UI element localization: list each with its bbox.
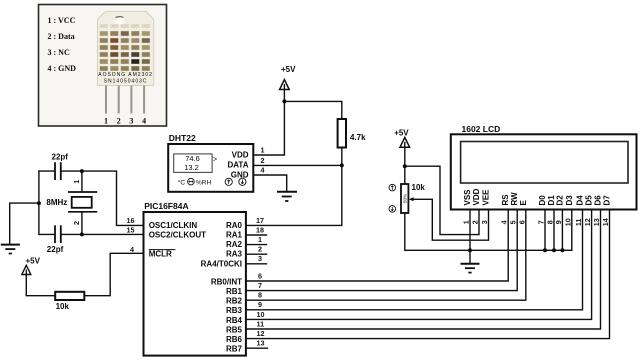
DHT22 pin numbers 1 2 4 bbox=[261, 146, 265, 175]
svg-text:%RH: %RH bbox=[196, 179, 211, 186]
PIC pin 4 number bbox=[130, 245, 134, 254]
svg-text:OSC2/CLKOUT: OSC2/CLKOUT bbox=[149, 231, 206, 240]
ground symbol (crystal) bbox=[1, 245, 20, 254]
ground symbol (LCD) bbox=[461, 264, 480, 273]
wire DATA node down to RA0 bbox=[246, 165, 342, 225]
capacitor C1 22pf bbox=[55, 162, 61, 180]
sensor pins bbox=[105, 86, 145, 114]
svg-text:3: 3 bbox=[480, 220, 489, 224]
svg-text:9: 9 bbox=[554, 220, 563, 224]
svg-text:RB7: RB7 bbox=[226, 345, 243, 354]
wire RB2 to LCD E bbox=[246, 210, 526, 301]
pin stub RA4 bbox=[246, 263, 267, 265]
resistor R1 4.7k bbox=[338, 119, 367, 148]
svg-text:12: 12 bbox=[583, 218, 592, 226]
DHT22 up-arrow button bbox=[225, 178, 232, 185]
wire resistor bottom to DATA node bbox=[341, 148, 343, 166]
sensor vent slots bbox=[100, 24, 150, 71]
svg-text:74.6: 74.6 bbox=[185, 154, 200, 163]
LCD pin numbers rotated bbox=[462, 218, 611, 226]
svg-text:7: 7 bbox=[258, 281, 262, 290]
svg-text:MCLR: MCLR bbox=[149, 250, 172, 259]
wire LCD D2 to ground rail bbox=[561, 210, 563, 251]
svg-text:2: 2 bbox=[117, 117, 121, 126]
svg-text:13: 13 bbox=[257, 339, 265, 348]
ground symbol (DHT22) bbox=[277, 192, 297, 201]
wire +5V node to LCD VDD bbox=[405, 166, 479, 234]
svg-text:4: 4 bbox=[500, 220, 509, 224]
PIC right pin names RB bbox=[211, 277, 243, 353]
wire RB4 to LCD D5 bbox=[246, 210, 592, 320]
svg-text:3: 3 bbox=[258, 254, 262, 263]
wire crystal node1 to OSC1 bbox=[82, 171, 144, 225]
wire MCLR to 10k resistor bbox=[84, 253, 143, 295]
wire C2 right plate to crystal node 2 bbox=[62, 233, 82, 235]
wire RB0 to LCD RS bbox=[246, 210, 508, 282]
svg-text:1: 1 bbox=[462, 220, 471, 224]
pin stub RA3 bbox=[246, 253, 267, 255]
svg-text:22pf: 22pf bbox=[47, 245, 64, 254]
LCD LCD1 1602 label bbox=[462, 124, 501, 134]
svg-text:RB2: RB2 bbox=[226, 297, 243, 306]
wire LCD D0 to ground rail bbox=[544, 210, 546, 251]
LCD LCD1 body bbox=[451, 134, 637, 209]
wire RB5 to LCD D6 bbox=[246, 210, 601, 330]
sensor pin numbers bbox=[104, 117, 146, 126]
svg-text:1: 1 bbox=[104, 117, 108, 126]
svg-text:RA3: RA3 bbox=[226, 250, 243, 259]
PIC pin 16 number bbox=[127, 216, 135, 225]
svg-text:4: 4 bbox=[142, 117, 146, 126]
capacitor C1 22pf label bbox=[52, 153, 69, 162]
svg-text:4.7k: 4.7k bbox=[350, 133, 366, 142]
svg-text:D3: D3 bbox=[565, 195, 574, 206]
svg-text:1: 1 bbox=[258, 235, 262, 244]
potentiometer down-adjust marker bbox=[389, 206, 396, 213]
sensor U1 DHT22 body bbox=[168, 144, 253, 192]
DHT22 sensor photo body bbox=[98, 11, 154, 85]
svg-text:50%: 50% bbox=[403, 194, 408, 203]
svg-text:DATA: DATA bbox=[227, 161, 248, 170]
microcontroller U2 PIC16F84A body bbox=[144, 212, 246, 356]
svg-text:RA1: RA1 bbox=[226, 231, 243, 240]
wire RB3 to LCD D4 bbox=[246, 210, 583, 310]
wire LCD D1 to ground rail bbox=[553, 210, 555, 251]
svg-text:4: 4 bbox=[261, 166, 265, 175]
svg-text:DHT22: DHT22 bbox=[169, 133, 196, 143]
svg-text:+5V: +5V bbox=[281, 65, 296, 74]
svg-text:6: 6 bbox=[258, 271, 262, 280]
svg-text:13.2: 13.2 bbox=[184, 163, 199, 172]
wire RB6 to LCD D7 bbox=[246, 210, 610, 339]
wire pot bottom to ground rail bbox=[405, 213, 572, 250]
svg-text:6: 6 bbox=[517, 220, 526, 224]
wire LCD VSS to ground rail bbox=[469, 210, 471, 251]
wire crystal node2 to OSC2 bbox=[82, 233, 144, 235]
svg-text:D7: D7 bbox=[603, 195, 612, 206]
svg-text:SN14050403C: SN14050403C bbox=[104, 79, 148, 85]
wire 10k to +5V bbox=[26, 274, 55, 296]
capacitor C2 22pf label bbox=[47, 245, 64, 254]
node junction VSS/ground rail bbox=[468, 248, 472, 252]
node junction D2/ground rail bbox=[560, 248, 564, 252]
wire pot top to +5V node bbox=[404, 166, 406, 184]
wire DHT22 VDD to +5V bbox=[253, 101, 284, 155]
svg-text:18: 18 bbox=[256, 225, 264, 234]
svg-text:VSS: VSS bbox=[463, 189, 472, 206]
PIC left pin names bbox=[149, 221, 206, 259]
LCD pin names rotated bbox=[463, 188, 612, 205]
DHT22 units legend bbox=[178, 178, 212, 186]
wire RB1 to LCD RW bbox=[246, 210, 517, 291]
resistor R2 10k bbox=[55, 292, 84, 311]
svg-text:D0: D0 bbox=[538, 195, 547, 206]
crystal X1 value label 8MHz bbox=[46, 198, 67, 207]
svg-text:17: 17 bbox=[256, 216, 264, 225]
svg-text:7: 7 bbox=[537, 220, 546, 224]
node junction left bus to ground bbox=[37, 201, 41, 205]
sensor engraved part number bbox=[98, 72, 153, 85]
wire bus to ground stem bbox=[10, 203, 39, 244]
svg-text:RA4/T0CKI: RA4/T0CKI bbox=[201, 259, 242, 268]
wire DHT22 GND down bbox=[253, 175, 286, 191]
microcontroller U2 PIC16F84A label bbox=[144, 201, 188, 211]
crystal X1 8MHz bbox=[68, 171, 97, 234]
svg-text:+5V: +5V bbox=[26, 257, 41, 266]
svg-text:D6: D6 bbox=[594, 195, 603, 206]
svg-text:12: 12 bbox=[257, 329, 265, 338]
wire C2 left plate to left bus bbox=[39, 233, 54, 235]
svg-text:D5: D5 bbox=[585, 195, 594, 206]
svg-text:22pf: 22pf bbox=[52, 153, 69, 162]
svg-text:2 : Data: 2 : Data bbox=[48, 32, 75, 41]
svg-text:2: 2 bbox=[261, 156, 265, 165]
svg-text:RA0: RA0 bbox=[226, 221, 243, 230]
node junction C2/X1/OSC2 bbox=[80, 232, 84, 236]
svg-text:4: 4 bbox=[130, 245, 134, 254]
svg-text:3: 3 bbox=[129, 117, 133, 126]
wire DHT22 DATA bbox=[253, 164, 341, 166]
svg-text:11: 11 bbox=[257, 319, 265, 328]
svg-text:2: 2 bbox=[72, 221, 81, 225]
PIC right pin numbers bbox=[256, 216, 265, 348]
DHT22 photo box frame bbox=[39, 5, 167, 127]
LCD screen window bbox=[461, 142, 628, 184]
svg-text:1602 LCD: 1602 LCD bbox=[462, 124, 501, 134]
potentiometer up-adjust marker bbox=[389, 184, 396, 191]
wire LCD D3 to ground rail bbox=[571, 210, 573, 251]
svg-text:VDD: VDD bbox=[232, 150, 249, 159]
svg-text:1 : VCC: 1 : VCC bbox=[48, 16, 76, 25]
svg-text:10: 10 bbox=[563, 218, 572, 226]
svg-text:RB1: RB1 bbox=[226, 287, 243, 296]
DHT22 display window bbox=[174, 154, 217, 173]
node junction D0/ground rail bbox=[543, 248, 547, 252]
svg-text:2: 2 bbox=[258, 245, 262, 254]
svg-text:8: 8 bbox=[258, 291, 262, 300]
svg-text:1: 1 bbox=[261, 146, 265, 155]
svg-text:D2: D2 bbox=[555, 195, 564, 206]
power +5V symbol (MCLR pull-up) bbox=[22, 257, 41, 275]
svg-text:2: 2 bbox=[471, 220, 480, 224]
power +5V symbol (LCD) bbox=[394, 128, 409, 147]
svg-text:RA2: RA2 bbox=[226, 240, 243, 249]
svg-text:9: 9 bbox=[258, 300, 262, 309]
PIC pin 15 number bbox=[127, 226, 135, 235]
svg-text:RB0/INT: RB0/INT bbox=[211, 277, 242, 286]
svg-text:VDD: VDD bbox=[472, 188, 481, 205]
wire left bus vertical bbox=[38, 171, 40, 234]
wire VSS node to ground symbol bbox=[469, 250, 471, 263]
power +5V symbol (DHT22) bbox=[280, 65, 297, 101]
svg-text:PIC16F84A: PIC16F84A bbox=[144, 201, 188, 211]
svg-text:>: > bbox=[213, 156, 217, 163]
sensor U1 DHT22 label bbox=[169, 133, 196, 143]
svg-text:16: 16 bbox=[127, 216, 135, 225]
wire C1 right plate to crystal node bbox=[62, 170, 82, 172]
svg-text:RB4: RB4 bbox=[226, 316, 243, 325]
svg-text:3 : NC: 3 : NC bbox=[48, 48, 70, 57]
svg-text:RS: RS bbox=[501, 194, 510, 206]
svg-text:13: 13 bbox=[592, 218, 601, 226]
crystal pin 1 label bbox=[72, 180, 81, 184]
PIC right pin names RA bbox=[201, 221, 243, 268]
crystal pin 2 label bbox=[72, 221, 81, 225]
wire +5V stem to node bbox=[404, 147, 406, 166]
svg-text:OSC1/CLKIN: OSC1/CLKIN bbox=[149, 221, 198, 230]
svg-text:RB6: RB6 bbox=[226, 335, 243, 344]
svg-text:4 : GND: 4 : GND bbox=[48, 64, 77, 73]
svg-text:10k: 10k bbox=[56, 302, 70, 311]
svg-text:D4: D4 bbox=[576, 195, 585, 206]
wire +5V rail to resistor top bbox=[284, 101, 341, 119]
node junction D1/ground rail bbox=[552, 248, 556, 252]
node junction C1/X1/OSC1 bbox=[80, 169, 84, 173]
DHT22 pin names bbox=[227, 150, 248, 179]
node junction +5V/VDD/4.7k bbox=[282, 99, 286, 103]
svg-text:AOSONG AM2302: AOSONG AM2302 bbox=[98, 72, 153, 78]
svg-text:11: 11 bbox=[574, 218, 583, 226]
node junction DATA/4.7k/RA0 bbox=[340, 163, 344, 167]
svg-text:1: 1 bbox=[72, 180, 81, 184]
svg-text:VEE: VEE bbox=[482, 189, 491, 206]
svg-text:10: 10 bbox=[257, 310, 265, 319]
wiper arrow to VEE bbox=[409, 197, 489, 240]
svg-text:8MHz: 8MHz bbox=[46, 198, 67, 207]
pin stub RA1 bbox=[246, 234, 267, 236]
svg-text:RB3: RB3 bbox=[226, 306, 243, 315]
svg-text:10k: 10k bbox=[412, 183, 426, 192]
pin stub RA2 bbox=[246, 244, 267, 246]
svg-text:GND: GND bbox=[231, 170, 249, 179]
node junction +5V/pot/VDD bbox=[403, 164, 407, 168]
svg-text:15: 15 bbox=[127, 226, 135, 235]
DHT22 down-arrow button bbox=[239, 178, 246, 185]
svg-text:+5V: +5V bbox=[394, 128, 409, 137]
potentiometer RV1 10k body bbox=[401, 184, 408, 213]
svg-text:°C: °C bbox=[178, 178, 186, 186]
potentiometer RV1 value 10k bbox=[412, 183, 426, 192]
svg-text:RB5: RB5 bbox=[226, 325, 243, 334]
svg-text:14: 14 bbox=[601, 218, 610, 226]
capacitor C2 22pf bbox=[55, 225, 61, 243]
photo pin legend text bbox=[48, 16, 77, 73]
pin stub RB7 bbox=[246, 347, 268, 349]
svg-text:E: E bbox=[519, 200, 528, 206]
wire C1 left plate to left bus bbox=[39, 170, 54, 172]
